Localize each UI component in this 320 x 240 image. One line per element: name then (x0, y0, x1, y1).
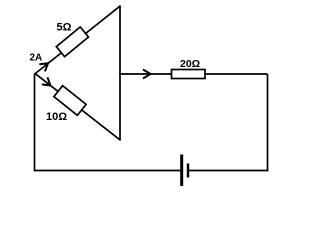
label: 5Ω (57, 22, 72, 34)
wire: lower diagonal branch (node A to bottom apex) (35, 73, 121, 140)
current arrow on lower branch (42, 77, 53, 89)
resistor R3 20Ω (body) (172, 70, 206, 79)
wire: horizontal output (triangle to right side, through R3) (119, 73, 268, 75)
current arrow on upper branch (2A) (39, 60, 50, 72)
svg-text:10Ω: 10Ω (46, 111, 67, 123)
wire: right vertical (267, 74, 269, 171)
wire: triangle right vertical side (119, 6, 121, 141)
current arrow on horizontal output wire (143, 70, 151, 79)
wire: bottom left segment (to battery) (34, 170, 182, 172)
wire: left vertical (node A to bottom-left corner) (34, 74, 36, 171)
label: 10Ω (46, 111, 67, 123)
wire: upper diagonal branch (node A to top apex) (35, 6, 121, 74)
battery B1: long plate (positive) (180, 155, 183, 187)
resistor R1 5Ω (body) (56, 27, 88, 57)
svg-text:20Ω: 20Ω (180, 58, 200, 70)
battery B1: short plate (negative) (187, 164, 190, 178)
label: 2A (30, 53, 43, 64)
resistor R2 10Ω (body) (54, 86, 86, 116)
label: 20Ω (180, 58, 200, 70)
svg-text:5Ω: 5Ω (57, 22, 72, 34)
svg-text:2A: 2A (30, 53, 43, 64)
wire: bottom right segment (battery to bottom-right corner) (188, 170, 268, 172)
